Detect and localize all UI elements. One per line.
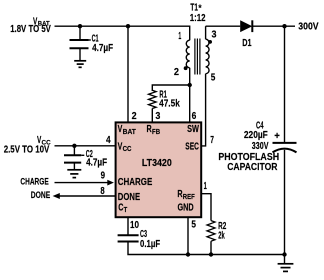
svg-text:T1: T1	[190, 2, 198, 13]
svg-text:2: 2	[132, 111, 137, 122]
svg-text:D1: D1	[242, 38, 252, 49]
svg-text:1: 1	[178, 31, 181, 42]
svg-text:6: 6	[192, 111, 197, 122]
svg-text:2k: 2k	[218, 230, 225, 241]
svg-text:300V: 300V	[298, 22, 318, 33]
svg-text:47.5k: 47.5k	[159, 99, 180, 110]
svg-text:8: 8	[100, 186, 105, 197]
svg-text:CHARGE: CHARGE	[20, 177, 48, 187]
svg-text:330V: 330V	[252, 141, 269, 152]
svg-text:220µF: 220µF	[244, 130, 268, 141]
svg-text:CC: CC	[123, 146, 132, 153]
svg-text:+: +	[274, 131, 280, 142]
svg-text:SW: SW	[187, 124, 199, 135]
svg-text:T: T	[124, 207, 128, 214]
svg-text:CAPACITOR: CAPACITOR	[227, 162, 278, 173]
svg-text:5: 5	[211, 72, 216, 83]
svg-text:0.1µF: 0.1µF	[140, 239, 160, 250]
svg-text:SEC: SEC	[185, 141, 199, 152]
svg-text:5: 5	[191, 220, 196, 231]
svg-text:3: 3	[155, 111, 160, 122]
svg-text:9: 9	[101, 171, 106, 182]
svg-text:3: 3	[212, 29, 217, 40]
svg-text:FB: FB	[152, 129, 160, 136]
svg-text:REF: REF	[183, 194, 196, 201]
svg-text:CHARGE: CHARGE	[118, 177, 153, 188]
svg-text:4: 4	[106, 135, 111, 146]
svg-text:GND: GND	[178, 202, 194, 213]
svg-text:DONE: DONE	[118, 192, 140, 203]
svg-text:4.7µF: 4.7µF	[86, 157, 107, 168]
svg-text:4.7µF: 4.7µF	[92, 43, 113, 54]
svg-text:1: 1	[204, 181, 207, 192]
svg-text:*: *	[198, 3, 202, 13]
svg-text:7: 7	[210, 135, 214, 146]
svg-text:1:12: 1:12	[190, 13, 206, 24]
svg-text:BAT: BAT	[38, 21, 50, 28]
svg-text:LT3420: LT3420	[142, 158, 172, 169]
svg-text:BAT: BAT	[123, 129, 137, 136]
svg-text:DONE: DONE	[31, 190, 50, 200]
svg-text:10: 10	[130, 220, 139, 231]
svg-text:CC: CC	[42, 139, 52, 146]
svg-text:2: 2	[174, 67, 179, 78]
